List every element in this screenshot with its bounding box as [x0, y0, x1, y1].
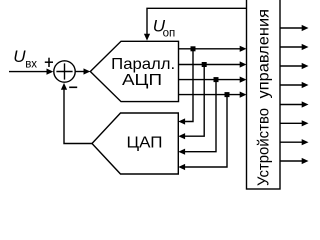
block parallel ADC: [90, 41, 178, 101]
output arrow 8: [280, 160, 306, 162]
output arrow 5: [280, 104, 306, 106]
minus sign at summer feedback input: [69, 86, 77, 88]
plus sign at summer input: [45, 58, 53, 67]
arrowhead into ADC: [84, 68, 91, 74]
label Parall. ACP: [111, 56, 175, 89]
wire ADC out bit1: [179, 48, 243, 50]
arrowhead into summer: [47, 69, 54, 75]
output arrow 4: [280, 84, 306, 86]
wire bit2 down to DAC: [184, 65, 204, 137]
block DAC: [92, 113, 178, 174]
wire bit4 down to DAC: [184, 95, 227, 167]
svg-text:управления: управления: [256, 9, 273, 98]
node dot bit1: [191, 46, 196, 51]
wire ADC out bit4: [179, 94, 243, 96]
block control unit: [247, 0, 281, 189]
wire bit1 down to DAC: [184, 49, 193, 122]
output arrow 7: [280, 141, 306, 143]
svg-text:АЦП: АЦП: [122, 72, 162, 89]
wire summer to ADC: [75, 71, 86, 73]
svg-text:ЦАП: ЦАП: [127, 135, 163, 152]
wire ADC out bit2: [179, 64, 243, 66]
wire Uop from control unit: [147, 8, 247, 36]
svg-text:оп: оп: [163, 28, 176, 40]
output arrow 6: [280, 122, 306, 124]
output arrow 1: [280, 27, 306, 29]
node dot bit3: [214, 77, 219, 82]
wire input to summer: [9, 71, 49, 73]
wire DAC feedback to summer: [64, 87, 92, 144]
wire ADC out bit3: [179, 79, 243, 81]
output arrow 3: [280, 65, 306, 67]
summing junction: [54, 61, 75, 82]
arrowhead into summer bottom: [61, 83, 67, 90]
wire bit3 down to DAC: [184, 80, 216, 152]
svg-text:вх: вх: [25, 58, 37, 70]
svg-text:Устройство: Устройство: [256, 108, 273, 186]
output arrow 2: [280, 46, 306, 48]
svg-text:Паралл.: Паралл.: [111, 56, 175, 73]
label U_op: [153, 16, 175, 39]
node dot bit4: [225, 92, 230, 97]
arrowhead Uop into ADC top: [144, 34, 150, 41]
label U_vx: [13, 47, 37, 70]
node dot bit2: [202, 62, 207, 67]
